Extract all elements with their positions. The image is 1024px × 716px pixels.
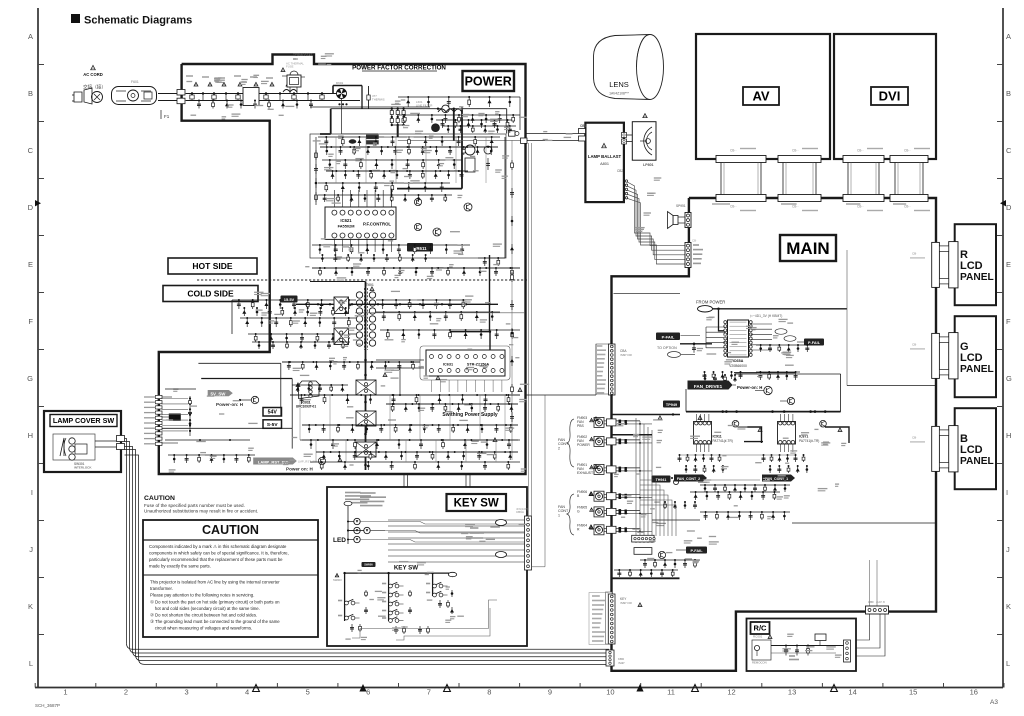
svg-text:F601: F601 [131,80,139,84]
svg-text:hot and cold sides (secondary: hot and cold sides (secondary circuit) a… [150,606,260,611]
label box S-5V [263,420,282,429]
svg-text:14: 14 [848,688,856,697]
svg-text:16: 16 [970,688,978,697]
svg-text:R/C: R/C [754,624,768,633]
svg-text:POWER: POWER [577,443,590,447]
fuse F601 lead [158,90,185,120]
svg-text:13: 13 [788,688,796,697]
label box 54V [263,408,282,417]
key board connector CB901 [388,507,532,570]
svg-text:8: 8 [487,688,491,697]
block G LCD PANEL [955,316,996,397]
caution box [143,520,318,637]
signal tag LAMP_RST_SW [253,458,317,472]
test point TP949 [612,401,681,416]
svg-text:KEY SW: KEY SW [454,498,499,510]
block B LCD PANEL [955,408,996,489]
svg-text:EXHAUST: EXHAUST [577,471,593,475]
signal tag P-FAIL fan [676,547,707,554]
svg-text:F1: F1 [164,114,170,119]
svg-text:LCD: LCD [960,444,983,456]
svg-text:particularly recommended that: particularly recommended that the replac… [149,557,283,562]
svg-text:circuit when measuring of volt: circuit when measuring of voltages and w… [150,626,252,631]
harness ballast to main [625,180,685,264]
svg-text:G: G [27,374,33,383]
LED indicators LED901-903 [333,493,525,544]
svg-text:H: H [1006,431,1011,440]
svg-text:FUSE: FUSE [286,65,294,69]
value tag 15.5V [281,296,298,303]
svg-text:A3: A3 [990,699,998,706]
connector stack DVI-2 CB2D [890,149,930,211]
svg-text:7: 7 [427,688,431,697]
svg-text:G: G [1006,374,1012,383]
connector stack AV-2 CB2B [778,149,821,211]
wires power to key sw [404,474,470,487]
svg-text:P-FAIL: P-FAIL [690,549,703,553]
svg-text:① Do not touch the part on hot: ① Do not touch the part on hot side (pri… [150,599,280,604]
svg-text:C: C [1006,146,1012,155]
photocoupler PC691 [356,380,376,395]
connector G panel [910,333,958,379]
svg-text:LP801: LP801 [643,163,654,167]
transformer T601 [356,283,375,350]
cold side rail 462 [310,461,520,470]
signal tag P-FAIL right [797,339,824,346]
label box HOT SIDE [168,258,257,274]
svg-text:SW900: SW900 [364,562,373,566]
signal tag FAN_DRIVE1 [688,381,763,391]
svg-text:PANEL: PANEL [960,272,994,283]
svg-text:Fuse of the specified parts nu: Fuse of the specified parts number must … [144,503,245,508]
svg-text:LAMP COVER SW: LAMP COVER SW [53,416,115,425]
wires CBF to RC [856,614,885,656]
svg-text:Components indicated by a mark: Components indicated by a mark ⚠ in this… [149,544,287,549]
svg-text:CB··: CB·· [857,149,864,153]
lens unit [594,35,664,100]
cold side rail 395 [290,394,520,404]
svg-text:INTERLOCK: INTERLOCK [74,465,92,469]
connector CBB key input [589,592,633,645]
svg-text:5: 5 [306,688,310,697]
photocoupler PC693 [356,442,376,457]
svg-text:1: 1 [558,513,560,517]
svg-text:D601: D601 [336,81,344,85]
svg-text:K: K [28,602,33,611]
fan drive sub-block [686,374,841,413]
svg-text:T601: T601 [366,283,374,287]
svg-text:K: K [1006,602,1011,611]
svg-text:CB··: CB·· [730,205,737,209]
cold side rail 440 [300,439,520,449]
svg-text:P-FAIL: P-FAIL [808,341,821,345]
microcontroller IC65A V20B66000 [704,314,800,382]
svg-text:B: B [1006,89,1011,98]
svg-text:H: H [28,431,33,440]
label box MAIN [780,235,836,261]
svg-text:I: I [31,488,33,497]
wires ballast standby [529,143,546,567]
transistor Q912 [732,420,763,443]
svg-text:PA7741(#-TR): PA7741(#-TR) [799,439,819,443]
connector R panel [910,242,958,288]
svg-text:Please pay attention to the fo: Please pay attention to the following no… [150,593,254,598]
svg-text:SP951: SP951 [676,204,686,208]
svg-text:AC CORD: AC CORD [83,72,103,77]
svg-text:FA5502M: FA5502M [338,224,355,229]
svg-text:THERMIS: THERMIS [372,97,385,101]
svg-text:L: L [1006,659,1010,668]
block AV [696,34,830,159]
svg-text:J: J [1006,545,1010,554]
svg-text:CB··: CB·· [904,149,911,153]
svg-text:CB··: CB·· [792,205,799,209]
remote control receiver R/C [747,619,857,672]
block R LCD PANEL [955,224,996,305]
svg-text:CB2: CB2 [617,169,623,173]
svg-text:4: 4 [245,688,249,697]
svg-text:CAUTION: CAUTION [202,523,259,537]
fan driver IC911 PA7741#-TR1 [678,414,733,473]
svg-text:IC631: IC631 [443,363,453,367]
svg-text:Power-on: H: Power-on: H [737,385,762,390]
svg-text:V20B66000: V20B66000 [729,364,747,368]
svg-text:POWER: POWER [465,75,512,89]
svg-text:CB··: CB·· [857,205,864,209]
photocoupler PC692 [356,411,376,426]
svg-text:P-FAIL: P-FAIL [662,334,675,339]
svg-text:F: F [1006,317,1011,326]
svg-text:CB··: CB·· [792,149,799,153]
block DVI [834,34,936,159]
resistor column left of IC621 [314,137,318,205]
svg-text:CB·: CB· [912,342,917,346]
transistor Q641 [239,396,259,403]
svg-text:Power-on: H: Power-on: H [216,402,244,407]
label Swithing Power Supply [442,412,498,418]
svg-text:PANEL: PANEL [960,456,994,467]
rail 15.5V [296,255,525,332]
svg-text:CB·: CB· [912,251,917,255]
svg-text:F: F [28,317,33,326]
svg-text:/S4P·B: /S4P·B [876,600,885,604]
svg-text:This projector is isolated fro: This projector is isolated from AC line … [150,580,280,585]
svg-text:9: 9 [548,688,552,697]
svg-text:2: 2 [124,688,128,697]
signal tag 5V_SW [208,390,244,407]
svg-text:L: L [29,659,33,668]
svg-text:FROM POWER: FROM POWER [696,300,725,305]
svg-text:AV: AV [752,89,769,104]
svg-text:FAN_CONT_2: FAN_CONT_2 [677,477,700,481]
svg-text:A: A [1006,32,1011,41]
connector stack AV-1 CB2A [716,149,766,211]
transistor Q872 [820,420,849,443]
svg-text:CAUTION: CAUTION [144,495,175,502]
svg-text:15.5V: 15.5V [284,297,295,302]
svg-text:FAN_DRIVE1: FAN_DRIVE1 [694,384,723,389]
svg-text:CB1: CB1 [580,124,587,128]
svg-text:KEY SW: KEY SW [394,565,418,572]
wire vertical PFC right [478,137,505,266]
svg-text:POWER FACTOR CORRECTION: POWER FACTOR CORRECTION [352,65,446,72]
svg-text:54V: 54V [268,410,278,416]
AC cord plug and line filter [72,65,157,104]
PFC controller IC621 FA5502M [325,189,462,252]
svg-text:TO OPTION: TO OPTION [657,346,677,350]
fans FN901-FN906 [577,416,640,535]
svg-text:2: 2 [558,446,560,450]
label FAN CONT 2 [558,419,574,467]
connector CBA power input [597,344,633,395]
svg-text:CBF: CBF [868,600,874,604]
key switches SW901-SW910 [333,562,497,640]
wire power to main CBA [526,344,610,395]
svg-text:D: D [1006,203,1012,212]
svg-text:IC911: IC911 [713,435,722,439]
regulator IC611 UPC1093T-01 [296,381,319,409]
switching transformer chain [310,282,367,471]
svg-text:LCD: LCD [960,352,983,364]
svg-text:10: 10 [606,688,614,697]
wire rail below IC621 [312,244,470,254]
photocoupler PC611 [334,297,349,314]
main board outline [612,198,937,671]
hot/cold isolation dashed line [197,279,527,281]
lamp cover switch connector [95,436,125,450]
svg-text:CB··: CB·· [904,205,911,209]
svg-text:TP949: TP949 [666,403,677,407]
svg-text:/S6P OR: /S6P OR [620,353,633,357]
svg-text:A: A [28,32,33,41]
svg-text:C: C [28,146,34,155]
svg-text:IC621: IC621 [340,218,352,223]
power supply board outline [159,55,526,475]
svg-text:/S4P: /S4P [618,661,625,665]
svg-text:② Do not shorten the circuit b: ② Do not shorten the circuit between hot… [150,613,257,618]
main inner block line [612,294,681,579]
primary/secondary snubber clusters [232,299,520,342]
wires fan control [612,435,796,520]
svg-text:P.F.CONTROL: P.F.CONTROL [363,222,391,227]
wires power to ballast CB1 [509,131,579,144]
power board edge connector CN601 [144,395,255,463]
svg-text:1AV4Z108***: 1AV4Z108*** [609,92,629,96]
harness key switch bus [125,439,610,665]
connector CBC bus [606,650,625,666]
circuit detail texture [166,54,846,658]
svg-text:LED: LED [333,537,346,544]
junction dots [165,146,520,453]
svg-text:SCH_3687P: SCH_3687P [35,703,60,708]
connector CN951 lamp signals [685,239,703,268]
switch LAMP COVER SW SW301 [44,411,121,472]
svg-text:E: E [1006,260,1011,269]
AC bus with line filter components [186,76,360,106]
safety warning marks [296,287,842,639]
svg-text:③ The grounding lead must be c: ③ The grounding lead must be connected t… [150,619,280,624]
svg-text:D: D [28,203,34,212]
svg-text:6: 6 [366,688,370,697]
svg-text:CB··: CB·· [730,149,737,153]
transistor Q942 [780,397,795,404]
svg-text:PANEL: PANEL [960,364,994,375]
photocoupler PC612 [334,328,349,345]
svg-text:11: 11 [667,688,675,697]
svg-text:A801: A801 [600,162,609,166]
5V_SW region wires [159,363,293,448]
wires to right edge [792,250,936,606]
fan driver IC871 PA7741#-TR1 [762,414,820,473]
svg-text:REMOCON: REMOCON [752,661,767,665]
transistor Q651 [318,457,325,464]
signal tag P-FAIL left [656,333,700,358]
svg-text:PBS: PBS [577,424,585,428]
fan wiring bus [628,418,700,568]
bridge rectifier D601 [320,81,528,189]
thermostat TH601 [281,53,312,94]
svg-text:15: 15 [909,688,917,697]
speaker SP951 [668,204,692,229]
svg-text:DVI: DVI [879,89,901,104]
svg-text:PA7741(#-TR): PA7741(#-TR) [713,439,733,443]
svg-text:E: E [28,260,33,269]
svg-text:IC65A: IC65A [733,359,744,363]
title Schematic Diagrams [71,14,192,27]
svg-text:Swithing Power Supply: Swithing Power Supply [442,412,498,418]
svg-text:components in which safety can: components in which safety can be of spe… [149,551,289,556]
svg-text:B: B [28,89,33,98]
svg-text:LMP_RST_SW: LMP_RST_SW [298,460,317,464]
svg-text:HOT SIDE: HOT SIDE [192,261,232,271]
svg-text:RC001: RC001 [753,635,763,639]
key switch board outline [327,487,527,646]
regulator IC631 STR-Z2156A [420,331,510,393]
svg-text:J: J [29,545,33,554]
svg-text:▷─4D1_3V (H KBMT): ▷─4D1_3V (H KBMT) [750,314,782,318]
svg-text:S-5V: S-5V [267,422,278,428]
svg-text:G: G [577,510,580,514]
svg-text:transformer.: transformer. [150,586,173,591]
projection lamp LP801 [622,114,657,167]
connector FROM POWER [680,300,847,373]
svg-text:Power on: H: Power on: H [286,467,313,472]
svg-text:1: 1 [63,688,67,697]
svg-text:I: I [1006,488,1008,497]
thermistor tag TH941 [652,476,679,485]
caution note small [144,495,258,514]
signal tag FAN_CONT_1 [762,475,795,482]
svg-text:COLD SIDE: COLD SIDE [187,289,234,299]
svg-text:LAMP BALLAST: LAMP BALLAST [588,154,622,159]
svg-text:CB·: CB· [692,239,697,243]
trimmer VR611 [407,243,433,252]
svg-text:LCD: LCD [960,260,983,272]
svg-text:3: 3 [185,688,189,697]
wires transformer to IC631 [376,360,424,396]
transistor Q941 [755,386,772,394]
svg-text:12: 12 [727,688,735,697]
svg-text:Unauthorized substitutions may: Unauthorized substitutions may result in… [144,509,258,514]
label POWER FACTOR CORRECTION [352,65,446,72]
connector stack DVI-1 CB2C [843,149,884,211]
svg-text:/S6P OR: /S6P OR [620,601,633,605]
power factor correction circuit cluster [310,96,520,258]
svg-text:Schematic Diagrams: Schematic Diagrams [84,15,192,27]
svg-text:ON: ON [293,57,298,61]
label box POWER [463,71,515,91]
connector CBF usb [866,600,889,614]
label box COLD SIDE [163,286,258,302]
connector B panel [910,426,958,472]
svg-text:UPC1093T-01: UPC1093T-01 [296,405,316,409]
lamp ballast A801 [579,123,624,202]
net labels under connector stacks [712,203,906,205]
label FAN CONT 1 [558,494,574,535]
svg-text:MAIN: MAIN [786,239,829,258]
svg-text:made by exactly the same parts: made by exactly the same parts. [149,564,211,569]
svg-text:SW903: SW903 [333,578,342,582]
svg-text:/4W(10P): /4W(10P) [516,507,528,511]
svg-text:TH941: TH941 [656,478,667,482]
svg-text:CB·: CB· [912,435,917,439]
svg-text:LENS: LENS [609,80,629,89]
signal tag FAN_CONT_2 [674,475,707,482]
